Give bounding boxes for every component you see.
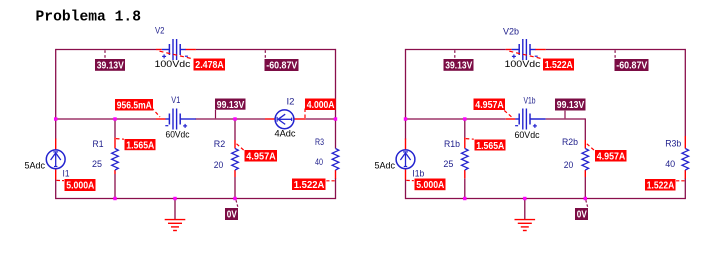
svg-text:25: 25: [443, 159, 453, 170]
red probe segment R2 top pin: [234, 140, 236, 149]
red probe segment V1 left pin: [156, 118, 166, 120]
red probe segment I1b bottom pin: [405, 169, 407, 180]
bias voltage label 39.13V right: [444, 59, 474, 71]
red dashed lead I1 to 5.000A label: [57, 179, 65, 181]
svg-text:20: 20: [214, 160, 224, 171]
bias current label 1.565A right: [475, 140, 506, 151]
svg-text:40: 40: [665, 159, 675, 170]
red probe segment V2 right pin: [185, 49, 196, 51]
bias voltage label 39.13V: [95, 59, 125, 71]
bias current label 956.5mA: [115, 99, 153, 111]
battery V2 100Vdc: [168, 44, 170, 55]
node dot R1 top: [113, 117, 116, 120]
svg-text:1.565A: 1.565A: [476, 141, 504, 152]
red dashed lead I1b to 5.000A label: [406, 179, 414, 181]
bias current label 1.565A: [125, 139, 156, 150]
red probe segment R1b top pin: [464, 138, 466, 149]
red probe segment R1 bottom pin: [114, 170, 116, 174]
bias voltage label 99.13V: [215, 99, 246, 110]
battery V1b lead stubs: [515, 118, 519, 120]
node dot R2 bottom: [233, 197, 236, 200]
svg-text:R3b: R3b: [665, 138, 681, 149]
red dashed lead R3b to 1.522A label: [676, 180, 685, 182]
battery V1 60Vdc: [168, 114, 170, 125]
svg-text:I1b: I1b: [412, 168, 424, 179]
svg-text:-60.87V: -60.87V: [616, 61, 647, 72]
svg-text:1.522A: 1.522A: [294, 180, 325, 191]
wire R1b branch lower: [464, 178, 466, 199]
ground symbol: [524, 199, 526, 220]
svg-text:I1: I1: [63, 169, 70, 180]
resistor R1b zigzag: [462, 149, 469, 171]
svg-text:4Adc: 4Adc: [275, 128, 296, 139]
wire middle row right segment to R2b corner: [546, 118, 586, 120]
svg-text:R1b: R1b: [444, 139, 460, 150]
bias current label 4.957A: [245, 150, 278, 162]
wire left edge lower: [405, 180, 407, 200]
wire bottom rail net 0: [56, 198, 336, 200]
bias voltage label -60.87V: [265, 59, 299, 71]
svg-text:39.13V: 39.13V: [445, 61, 472, 72]
bias current label 4.957A mid right: [474, 99, 506, 111]
node dot R2 top: [233, 117, 236, 120]
red probe segment I1 top pin: [55, 139, 57, 150]
wire middle row segment V1 to I2: [195, 118, 265, 120]
bias voltage label 0V: [225, 208, 238, 220]
node dot R1 bottom: [113, 197, 116, 200]
svg-text:39.13V: 39.13V: [97, 61, 124, 72]
current source I1 5Adc: [46, 150, 65, 169]
svg-text:5Adc: 5Adc: [375, 161, 396, 172]
red dashed lead R2b to 4.957A label: [587, 144, 595, 151]
bias current label 4.957A R2b: [595, 150, 627, 162]
resistor R1 zigzag: [112, 149, 119, 171]
bias voltage label -60.87V right: [615, 59, 649, 71]
bias current label 2.478A: [194, 59, 226, 71]
svg-text:0V: 0V: [227, 210, 237, 221]
red probe segment R2b bottom pin: [584, 170, 586, 177]
battery V1 lead stubs: [166, 118, 170, 120]
wire left edge lower: [55, 180, 57, 200]
tick to -60.87V label: [264, 50, 266, 58]
wire top-left segment net N1: [56, 49, 156, 51]
svg-text:V1b: V1b: [524, 96, 536, 107]
tick to 99.13V label: [564, 111, 566, 119]
battery V2b 100Vdc: [518, 44, 520, 55]
red probe segment I1 bottom pin: [55, 169, 57, 180]
wire bottom rail net 0: [406, 198, 686, 200]
red probe segment R3b top pin: [684, 136, 686, 149]
svg-text:Problema 1.8: Problema 1.8: [36, 10, 142, 26]
bias current label 1.522A bottom right: [645, 179, 676, 191]
node dot left-edge middle: [404, 117, 407, 120]
tick to 0V label: [236, 200, 238, 207]
battery V2 lead stubs: [162, 49, 170, 51]
red probe segment I1b top pin: [405, 139, 407, 150]
svg-text:1.522A: 1.522A: [647, 181, 675, 192]
red probe segment V2b left pin: [506, 49, 512, 51]
svg-text:V1: V1: [171, 95, 180, 106]
svg-text:956.5mA: 956.5mA: [117, 101, 152, 112]
wire top-left segment net N1b: [406, 49, 506, 51]
wire R1 branch upper: [114, 119, 116, 138]
wire R1b branch upper: [464, 119, 466, 138]
resistor R3b zigzag: [682, 149, 689, 171]
red probe segment V2 left pin: [156, 49, 162, 51]
wire right edge lower: [684, 178, 686, 199]
svg-text:R2: R2: [214, 139, 226, 150]
wire middle row left segment: [406, 118, 506, 120]
svg-text:5Adc: 5Adc: [25, 161, 46, 172]
node dot ground: [523, 197, 526, 200]
svg-text:5.000A: 5.000A: [66, 181, 94, 192]
svg-text:R2b: R2b: [562, 137, 578, 148]
node dot ground: [173, 197, 176, 200]
red dashed lead V1 to 956.5mA label: [152, 108, 161, 118]
red probe segment I2 right pin: [294, 118, 306, 120]
red dashed lead V2 to current label: [160, 51, 194, 59]
svg-text:60Vdc: 60Vdc: [166, 129, 190, 140]
red probe segment R2b top pin: [584, 140, 586, 149]
wire left edge upper: [55, 49, 57, 140]
svg-text:40: 40: [315, 157, 323, 168]
svg-text:R3: R3: [315, 137, 324, 148]
red dashed lead R1b to 1.565A label: [466, 138, 474, 141]
red dashed lead R2 to 4.957A label: [237, 144, 245, 151]
bias voltage label 99.13V right: [555, 99, 586, 111]
svg-text:100Vdc: 100Vdc: [505, 59, 541, 70]
wire right edge lower: [335, 178, 337, 199]
svg-text:4.957A: 4.957A: [597, 152, 626, 163]
red probe segment R3 bottom pin: [335, 170, 337, 179]
node dot R2b bottom: [584, 197, 587, 200]
svg-text:1.565A: 1.565A: [126, 141, 154, 152]
svg-text:99.13V: 99.13V: [217, 100, 245, 111]
bias current label 5.000A right: [415, 179, 446, 191]
red probe segment R2 bottom pin: [234, 170, 236, 177]
red probe segment V1b left pin: [506, 118, 516, 120]
svg-text:V2: V2: [155, 25, 165, 36]
svg-text:25: 25: [92, 159, 102, 170]
svg-text:I2: I2: [287, 96, 295, 107]
wire right edge upper: [684, 49, 686, 136]
svg-text:R1: R1: [93, 139, 104, 150]
node dot R1b bottom: [463, 197, 466, 200]
red probe segment V2b right pin: [535, 49, 546, 51]
node dot right-edge middle: [334, 117, 337, 120]
svg-text:99.13V: 99.13V: [557, 100, 585, 111]
bias current label 1.522A: [292, 179, 326, 191]
tick to 39.13V label: [104, 50, 106, 58]
svg-text:4.957A: 4.957A: [246, 152, 275, 163]
svg-text:1.522A: 1.522A: [545, 60, 573, 71]
resistor R2b zigzag: [582, 149, 589, 171]
bias current label 5.000A: [65, 179, 96, 191]
wire R1 branch lower: [114, 174, 116, 199]
wire middle row left segment: [56, 118, 156, 120]
node dot R1b top: [463, 117, 466, 120]
node dot left-edge middle: [54, 117, 57, 120]
current source I2 4Adc: [275, 110, 294, 129]
red dashed lead V1b to 4.957A label: [504, 111, 513, 119]
red probe segment R3b bottom pin: [684, 170, 686, 179]
red probe segment R1b bottom pin: [464, 170, 466, 178]
svg-text:0V: 0V: [577, 210, 587, 221]
wire R2 branch upper: [234, 119, 236, 140]
red dashed lead I2 to 4.000A label: [304, 109, 306, 119]
svg-text:60Vdc: 60Vdc: [515, 130, 540, 141]
wire right edge upper: [335, 49, 337, 149]
svg-text:2.478A: 2.478A: [195, 60, 224, 71]
wire top-right segment net N2: [196, 49, 336, 51]
wire R2b branch lower: [584, 177, 586, 199]
red probe segment R1 top pin: [114, 138, 116, 149]
svg-text:4.957A: 4.957A: [475, 100, 504, 111]
bias voltage label 0V right: [575, 208, 588, 220]
tick to 39.13V label: [454, 50, 456, 58]
wire left edge upper: [405, 49, 407, 140]
svg-text:4.000A: 4.000A: [307, 100, 335, 111]
battery V2b lead stubs: [512, 49, 520, 51]
svg-text:20: 20: [564, 160, 574, 171]
wire middle row segment I2 to right edge: [306, 118, 336, 120]
resistor R3 zigzag: [332, 149, 339, 171]
wire top-right segment net N2b: [546, 49, 686, 51]
tick to -60.87V label: [614, 50, 616, 58]
svg-text:5.000A: 5.000A: [416, 180, 444, 191]
svg-text:100Vdc: 100Vdc: [155, 59, 191, 70]
tick to 99.13V label: [215, 110, 217, 118]
current source I1b 5Adc: [396, 150, 415, 169]
tick to 0V label: [586, 200, 588, 207]
bias current label 4.000A: [305, 99, 336, 111]
wire R2 branch lower: [234, 177, 236, 199]
red dashed lead R1 to 1.565A label: [116, 138, 124, 141]
svg-text:V2b: V2b: [503, 26, 519, 37]
red dashed lead V2b to current label: [509, 51, 543, 59]
bias current label 1.522A top right: [543, 59, 574, 71]
ground symbol: [174, 199, 176, 220]
svg-text:-60.87V: -60.87V: [266, 61, 297, 72]
battery V1b 60Vdc: [518, 114, 520, 125]
red probe segment I2 left pin: [265, 118, 275, 120]
red dashed lead R3 to 1.522A label: [326, 180, 335, 182]
resistor R2 zigzag: [232, 149, 239, 171]
